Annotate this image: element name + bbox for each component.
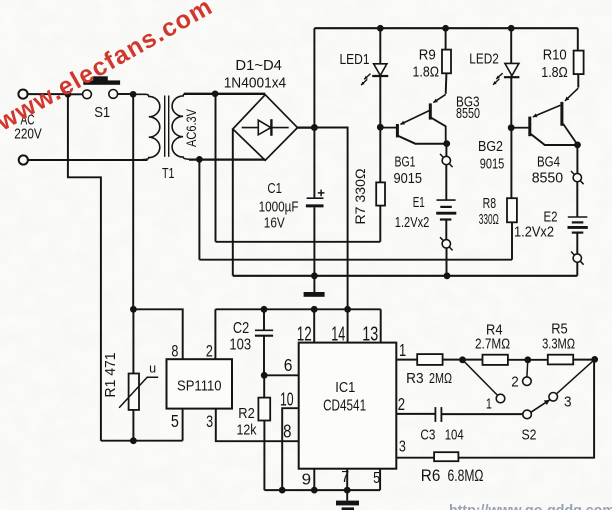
node +V junction — [311, 124, 318, 131]
svg-text:1.2Vx2: 1.2Vx2 — [514, 225, 554, 241]
ground rail y276 — [233, 275, 578, 277]
LED1 light arrow 2 — [361, 79, 367, 85]
svg-text:R2: R2 — [238, 405, 255, 422]
wire R5 to right node — [573, 359, 595, 361]
wire bottom line y490 — [264, 489, 380, 491]
svg-text:1.8Ω: 1.8Ω — [541, 64, 568, 81]
varistor diagonal with U mark — [119, 377, 158, 408]
battery E1 1.2Vx2 — [437, 199, 456, 201]
svg-text:8550: 8550 — [532, 170, 564, 187]
wire S1 to right junction — [118, 93, 131, 95]
switch S2 contact 1 — [496, 394, 505, 403]
svg-text:E1: E1 — [413, 194, 425, 211]
wire R9 to BG3 emitter — [445, 73, 448, 94]
wire contact to E2 — [576, 182, 578, 217]
node R5/S2-3/R6 — [591, 356, 598, 363]
battery E2 1.2Vx2 — [568, 216, 588, 218]
transformer T1 primary winding — [133, 94, 160, 159]
svg-text:1: 1 — [399, 340, 406, 360]
node secondary top junction — [212, 90, 219, 97]
wire T1 primary top junction down to R1 — [132, 94, 134, 309]
switch S2 contact 1 wire — [463, 360, 498, 396]
wire IC1 pin 9 stub — [313, 469, 315, 490]
transformer T1 core — [164, 96, 166, 157]
svg-text:103: 103 — [229, 336, 251, 353]
svg-text:C2: C2 — [233, 320, 249, 337]
wire pin 3 to R6 — [396, 457, 434, 459]
svg-text:104: 104 — [445, 426, 464, 443]
svg-text:1.2Vx2: 1.2Vx2 — [395, 215, 430, 231]
wire IC1 pin 5 stub — [379, 469, 381, 490]
wire +V vertical / C1 top — [313, 28, 315, 197]
contact clip E2 - — [571, 252, 584, 265]
node BG1/BG3 collectors — [443, 140, 450, 147]
svg-text:2MΩ: 2MΩ — [429, 370, 452, 387]
wire secondary-top node down to R7 rail — [215, 94, 217, 242]
wire node to SP1110 pin 8 — [133, 309, 182, 359]
svg-text:CD4541: CD4541 — [323, 398, 366, 415]
svg-text:C1: C1 — [267, 180, 282, 197]
wire SP1110 pin 2 up to VDD line — [214, 309, 216, 359]
wire R6 to R5 node — [458, 359, 594, 457]
svg-text:AC6.3V: AC6.3V — [184, 109, 199, 147]
wire SP1110 pin 3 to IC1 pin 8 — [216, 409, 299, 442]
wire contact to ground rail end — [576, 262, 578, 276]
svg-text:330Ω: 330Ω — [479, 211, 499, 228]
wire rail y242 to R7 bottom — [216, 241, 381, 243]
wire bridge negative down — [232, 129, 234, 276]
node E1 on ground rail — [444, 272, 451, 279]
node ground rail junction — [311, 272, 318, 279]
svg-text:2: 2 — [206, 342, 213, 361]
svg-text:T1: T1 — [162, 166, 175, 182]
BG4 collector — [563, 124, 578, 145]
svg-text:5: 5 — [171, 411, 179, 431]
wire node down to R1 — [132, 309, 134, 373]
svg-text:BG4: BG4 — [537, 153, 560, 170]
BG3 collector — [431, 118, 445, 144]
svg-text:BG1: BG1 — [395, 153, 416, 170]
BG3 emitter arrow from R9 — [433, 94, 445, 102]
resistor R3 2M — [417, 354, 442, 365]
svg-text:R3: R3 — [406, 370, 424, 387]
capacitor C2 103 — [255, 329, 273, 331]
svg-text:8: 8 — [283, 420, 291, 441]
svg-text:R9: R9 — [419, 47, 436, 64]
node top rail LED1 — [377, 25, 384, 32]
wire R7 to rail y242 — [379, 206, 381, 242]
varistor R1 471 — [129, 374, 139, 410]
svg-text:R1 471: R1 471 — [103, 353, 119, 398]
contact clip E1 - — [440, 237, 453, 250]
node S1 left junction — [65, 91, 72, 98]
wire R10 to BG4 emitter — [577, 74, 579, 88]
BG2 collector — [531, 134, 578, 145]
wire VDD to C2 — [263, 309, 265, 330]
wire bridge positive to +V node — [298, 126, 315, 128]
wire R4 to R5 — [508, 359, 548, 361]
wire bottom-left horizontal — [101, 440, 183, 442]
node C2/R2/pin6 — [261, 372, 268, 379]
wire IC1 pin 10 down — [282, 408, 299, 490]
transistor BG3 8550 — [429, 103, 432, 119]
wire T1 secondary top to bridge — [184, 93, 265, 95]
svg-text:2: 2 — [511, 374, 519, 391]
wire E1 to bottom contact — [445, 220, 447, 240]
wire node to R8 — [510, 128, 512, 199]
wire to E1 top contact — [445, 144, 447, 157]
svg-text:9: 9 — [302, 471, 312, 488]
svg-text:8: 8 — [171, 342, 178, 361]
wire AC bottom to T1 primary — [28, 159, 147, 161]
wire R8 to rail y260 — [511, 222, 513, 259]
diode symbol inside bridge — [242, 127, 289, 129]
IC SP1110 — [167, 359, 233, 408]
wire node to R2 — [263, 375, 265, 397]
node R4/R5/S2-2 — [524, 356, 531, 363]
svg-text:9015: 9015 — [394, 170, 423, 187]
wire junction to S1 — [68, 93, 83, 95]
svg-text:1000µF: 1000µF — [259, 199, 299, 215]
LED2 light arrow 2 — [493, 79, 499, 85]
svg-text:LED2: LED2 — [469, 50, 499, 67]
wire R1 to bottom node — [132, 410, 134, 441]
svg-text:R8: R8 — [483, 195, 497, 212]
switch S1 — [83, 90, 92, 99]
switch S2 contact 2 wire — [526, 360, 529, 377]
BG4 emitter arrow from R10 — [565, 88, 578, 101]
svg-text:7: 7 — [341, 469, 349, 486]
wire IC1 pin 7 stub — [346, 469, 348, 490]
svg-text:R10: R10 — [543, 46, 567, 63]
transistor BG2 9015 — [514, 127, 529, 129]
svg-text:S1: S1 — [94, 104, 110, 121]
capacitor C1 — [307, 197, 324, 199]
wire SP1110 pin 5 stub — [182, 409, 184, 441]
svg-text:12k: 12k — [237, 422, 257, 439]
wire pin 1 to R3 — [396, 359, 417, 361]
IC IC1 CD4541 — [299, 343, 397, 469]
svg-text:10: 10 — [280, 389, 294, 410]
svg-text:E2: E2 — [544, 208, 558, 225]
LED2 — [505, 63, 519, 75]
svg-text:12: 12 — [297, 324, 312, 346]
wire node to R7 — [379, 127, 381, 182]
svg-text:IC1: IC1 — [335, 379, 355, 396]
ground symbol (main rail) — [313, 276, 315, 292]
node pin10 line at bottom — [279, 487, 286, 494]
wire to E2 top contact — [576, 145, 578, 173]
wire IC1 pin 14 stub — [347, 309, 349, 342]
svg-text:3.3MΩ: 3.3MΩ — [542, 335, 575, 352]
wire C2 to R2 node — [263, 336, 265, 376]
resistor R6 6.8M — [434, 452, 458, 461]
wire IC1 pin 13 stub — [380, 309, 382, 342]
svg-text:http://www.go-gddq.com: http://www.go-gddq.com — [449, 502, 612, 510]
node C2 top — [261, 306, 268, 313]
svg-text:5: 5 — [373, 470, 380, 487]
svg-text:9015: 9015 — [480, 155, 505, 172]
switch S2 wiper — [531, 400, 550, 412]
svg-text:R6: R6 — [421, 467, 441, 485]
wire contact to ground rail — [446, 248, 448, 276]
node pin 7 ground — [344, 487, 351, 494]
node BG2/BG4 collectors — [574, 142, 581, 149]
svg-text:LED1: LED1 — [340, 51, 370, 68]
wire T1 secondary bottom to bridge — [189, 158, 265, 160]
node LED2/R8/BG2 base — [508, 124, 515, 131]
wire rail y260 to R8 bottom — [199, 259, 512, 261]
node R1 top — [130, 306, 137, 313]
capacitor C3 104 — [434, 407, 436, 422]
switch S2 contact 3 — [549, 393, 558, 402]
svg-text:2.7MΩ: 2.7MΩ — [475, 335, 510, 352]
resistor R10 — [574, 51, 584, 75]
wire contact to E1 — [445, 165, 447, 200]
contact clip E2 + — [571, 171, 584, 184]
wire R3 to R4 — [443, 359, 483, 361]
svg-text:16V: 16V — [264, 216, 285, 232]
node secondary bottom junction — [196, 156, 203, 163]
svg-text:14: 14 — [331, 324, 345, 346]
svg-text:8550: 8550 — [456, 105, 480, 122]
switch S2 contact 2 — [523, 377, 532, 386]
node R3/R4/S2-1 — [459, 356, 466, 363]
wire R2 down to bottom line — [263, 421, 265, 491]
svg-text:3: 3 — [206, 412, 213, 431]
wire LED2 to BG2 base node — [510, 76, 512, 128]
node LED1/R7/BG1 base — [377, 124, 384, 131]
LED1 — [374, 64, 387, 76]
BG1 emitter arrow to base of BG3 — [400, 111, 429, 125]
node pin 9 at bottom — [311, 487, 318, 494]
contact clip E1 + — [440, 154, 453, 167]
node top rail LED2 — [508, 25, 515, 32]
svg-text:3: 3 — [399, 439, 406, 456]
resistor R7 — [376, 182, 385, 205]
wire rail to LED2 — [510, 28, 512, 63]
svg-text:u: u — [149, 362, 156, 376]
svg-text:1.8Ω: 1.8Ω — [413, 63, 440, 80]
LED1 light arrow 1 — [364, 74, 370, 80]
svg-text:2: 2 — [398, 394, 405, 414]
AC terminal bottom — [19, 155, 28, 164]
ground symbol (IC1 pin 7) — [346, 490, 348, 501]
LED2 light arrow 1 — [496, 73, 502, 79]
switch S2 contact 3 wire — [556, 359, 594, 394]
transistor BG1 9015 — [383, 127, 396, 129]
wire rail corner to R10 — [577, 28, 579, 50]
wire LED1 to BG1 base node — [379, 75, 381, 127]
resistor R2 12k — [258, 398, 270, 421]
wire secondary-bottom node down to R8 rail — [198, 159, 200, 259]
AC terminal top — [18, 90, 27, 99]
node pin 12 on VDD line — [311, 306, 318, 313]
C1 plus sign — [318, 190, 325, 197]
wire rail to LED1 — [379, 28, 381, 63]
svg-text:C3: C3 — [420, 426, 435, 443]
wire AC-top branch down left side — [68, 94, 101, 440]
svg-text:13: 13 — [362, 324, 378, 346]
wire +V to IC supply line — [314, 128, 347, 310]
svg-text:R7 330Ω: R7 330Ω — [352, 169, 368, 225]
svg-text:6.8MΩ: 6.8MΩ — [448, 467, 484, 485]
resistor R4 2.7M — [483, 355, 508, 365]
node top rail R9 — [442, 25, 449, 32]
wire C1 bottom to ground rail — [313, 207, 315, 275]
switch S2 common — [523, 410, 532, 419]
wire rail to R9 — [445, 28, 447, 49]
node S1 right junction / T1 primary top — [130, 91, 137, 98]
wire IC1 pin 12 stub — [313, 309, 315, 342]
svg-text:D1~D4: D1~D4 — [235, 57, 282, 74]
node pin 14 on VDD line — [344, 306, 351, 313]
node R1 bottom — [130, 437, 137, 444]
svg-text:BG2: BG2 — [478, 138, 503, 155]
svg-text:1: 1 — [486, 395, 492, 412]
paper texture — [0, 0, 1, 1]
wire top +V rail — [314, 27, 577, 29]
transistor BG4 8550 — [560, 102, 563, 126]
svg-text:SP1110: SP1110 — [177, 378, 222, 395]
wire E2 to bottom contact — [576, 233, 578, 254]
transformer T1 secondary winding — [172, 94, 215, 159]
svg-text:3: 3 — [564, 394, 572, 411]
svg-text:S2: S2 — [522, 426, 537, 443]
svg-text:6: 6 — [284, 355, 293, 375]
svg-text:1N4001x4: 1N4001x4 — [224, 74, 287, 91]
wire pin 2 to C3 — [396, 413, 435, 415]
bridge rectifier D1~D4 — [233, 95, 298, 161]
resistor R9 — [442, 50, 451, 74]
wire AC top to S1 junction — [28, 93, 65, 95]
BG2 emitter arrow to base of BG4 — [533, 105, 561, 117]
wire VDD line — [215, 308, 380, 310]
BG1 collector — [398, 136, 446, 144]
wire C3 to S2 common — [441, 413, 522, 415]
resistor R8 — [507, 198, 517, 222]
resistor R5 3.3M — [548, 355, 573, 365]
wire node to IC1 pin 6 — [264, 374, 299, 376]
